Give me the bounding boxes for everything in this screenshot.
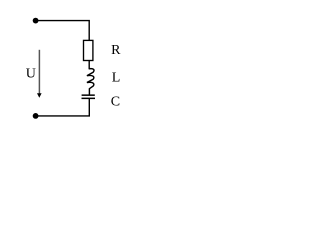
svg-text:R: R — [111, 43, 121, 58]
node: top-left terminal dot — [33, 18, 39, 24]
arrow: voltage direction shaft — [38, 50, 40, 94]
wire: capacitor bottom down and left along bottom — [36, 98, 90, 116]
inductor L (spring coil) — [87, 69, 94, 95]
capacitor C bottom plate — [82, 97, 96, 99]
svg-text:C: C — [111, 94, 120, 109]
wire: resistor bottom to inductor top — [88, 61, 90, 70]
svg-text:U: U — [26, 67, 36, 82]
arrow: voltage arrowhead — [37, 93, 42, 97]
svg-text:L: L — [112, 71, 121, 86]
resistor R — [84, 40, 93, 60]
capacitor C top plate — [82, 94, 95, 96]
wire: top horizontal from terminal to right, then down to resistor — [36, 21, 90, 41]
node: bottom-left terminal dot — [33, 113, 39, 119]
